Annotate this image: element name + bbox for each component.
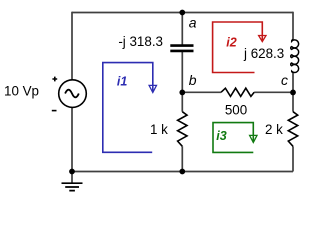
svg-text:2 k: 2 k	[265, 122, 283, 137]
wire b to 500	[182, 91, 221, 93]
mesh loop i2 (red)	[213, 22, 266, 73]
wire top rail	[72, 12, 293, 14]
svg-text:10 Vp: 10 Vp	[4, 83, 39, 98]
svg-text:b: b	[189, 72, 197, 88]
svg-text:500: 500	[225, 103, 247, 118]
wire right lower	[292, 146, 294, 171]
source sine wave	[65, 90, 79, 98]
ground stub	[71, 172, 73, 183]
wire left lower	[71, 107, 73, 171]
wire bottom rail	[72, 171, 293, 173]
resistor 1k (vertical)	[178, 112, 187, 147]
mesh loop i1 (blue)	[103, 63, 157, 153]
junction dot bottom middle	[179, 169, 185, 175]
svg-text:-j 318.3: -j 318.3	[118, 34, 163, 49]
source plus sign	[52, 77, 57, 82]
resistor 500 (horizontal)	[221, 88, 254, 96]
wire right middle	[292, 72, 294, 111]
svg-text:c: c	[281, 72, 288, 88]
node a dot	[179, 10, 185, 16]
wire middle mid (capacitor to b to 1k)	[181, 52, 183, 112]
node b dot	[179, 90, 185, 96]
source minus sign	[52, 110, 57, 112]
node c dot	[290, 90, 296, 96]
source V1 circle	[59, 80, 87, 108]
ground bars	[62, 183, 83, 190]
svg-text:1 k: 1 k	[150, 122, 168, 137]
svg-text:a: a	[189, 15, 197, 31]
svg-text:j 628.3: j 628.3	[243, 46, 284, 61]
wire 500 to c	[254, 91, 293, 93]
mesh loop i3 (green)	[213, 123, 257, 153]
inductor coil	[291, 40, 299, 73]
wire middle upper (a to capacitor)	[181, 13, 183, 45]
svg-text:i1: i1	[117, 75, 127, 89]
wire middle lower (1k to bottom rail)	[181, 146, 183, 171]
wire right upper	[292, 12, 294, 40]
capacitor plates	[170, 46, 193, 51]
junction dot ground	[69, 169, 75, 175]
resistor 2k (vertical)	[288, 112, 297, 147]
wire left upper	[71, 12, 73, 80]
svg-text:i3: i3	[216, 129, 226, 143]
svg-text:i2: i2	[226, 36, 236, 50]
